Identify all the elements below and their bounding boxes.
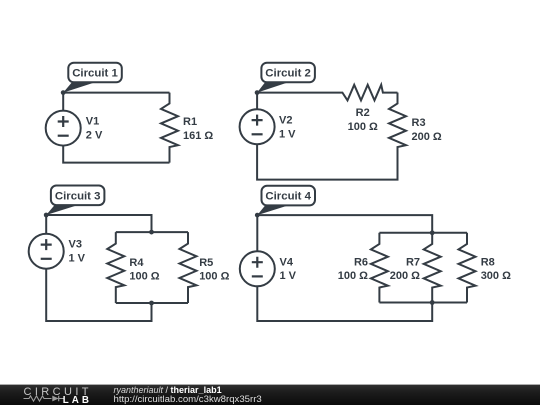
- node G (circuit 4 parallel top junction): [430, 230, 435, 235]
- svg-text:Circuit 2: Circuit 2: [265, 68, 311, 80]
- wire circuit 4 loop: [257, 215, 432, 321]
- svg-text:LAB: LAB: [63, 395, 92, 405]
- voltage source V1: [46, 111, 81, 146]
- label callout "Circuit 1": [63, 63, 122, 93]
- svg-text:Circuit 3: Circuit 3: [55, 190, 101, 202]
- resistor R7: [424, 233, 441, 303]
- node D (circuit 3 parallel top junction): [149, 230, 154, 235]
- wire circuit 1 loop: [63, 93, 169, 163]
- voltage source V2: [240, 109, 275, 144]
- resistor R1: [161, 93, 178, 163]
- node C (circuit 3 top-left junction): [44, 213, 49, 218]
- wire circuit 3 loop: [46, 215, 151, 321]
- label callout "Circuit 3": [46, 186, 104, 216]
- resistor R4: [107, 232, 124, 303]
- voltage source V4: [240, 251, 275, 286]
- node B (circuit 2 top-left junction): [255, 90, 260, 95]
- label callout "Circuit 2": [257, 63, 315, 93]
- resistor R6: [371, 233, 388, 303]
- node A (circuit 1 top-left junction): [61, 90, 66, 95]
- wire circuit 2 loop: [257, 93, 397, 180]
- node E (circuit 3 parallel bottom junction): [149, 301, 154, 306]
- resistor R3: [389, 93, 406, 180]
- label callout "Circuit 4": [257, 186, 315, 215]
- resistor R8: [459, 233, 476, 303]
- svg-text:http://circuitlab.com/c3kw8rqx: http://circuitlab.com/c3kw8rqx35rr3: [114, 394, 262, 405]
- voltage source V3: [29, 234, 64, 269]
- svg-text:Circuit 1: Circuit 1: [72, 68, 118, 80]
- resistor R2: [257, 85, 397, 101]
- wire circuit 3 parallel rails: [116, 232, 188, 303]
- node F (circuit 4 top-left junction): [255, 213, 260, 218]
- node H (circuit 4 parallel bottom junction): [430, 300, 435, 305]
- CircuitLab logo resistor-diode squiggle: [24, 396, 65, 402]
- svg-text:Circuit 4: Circuit 4: [265, 191, 311, 203]
- wire circuit 4 parallel rails: [379, 233, 467, 303]
- resistor R5: [180, 232, 197, 303]
